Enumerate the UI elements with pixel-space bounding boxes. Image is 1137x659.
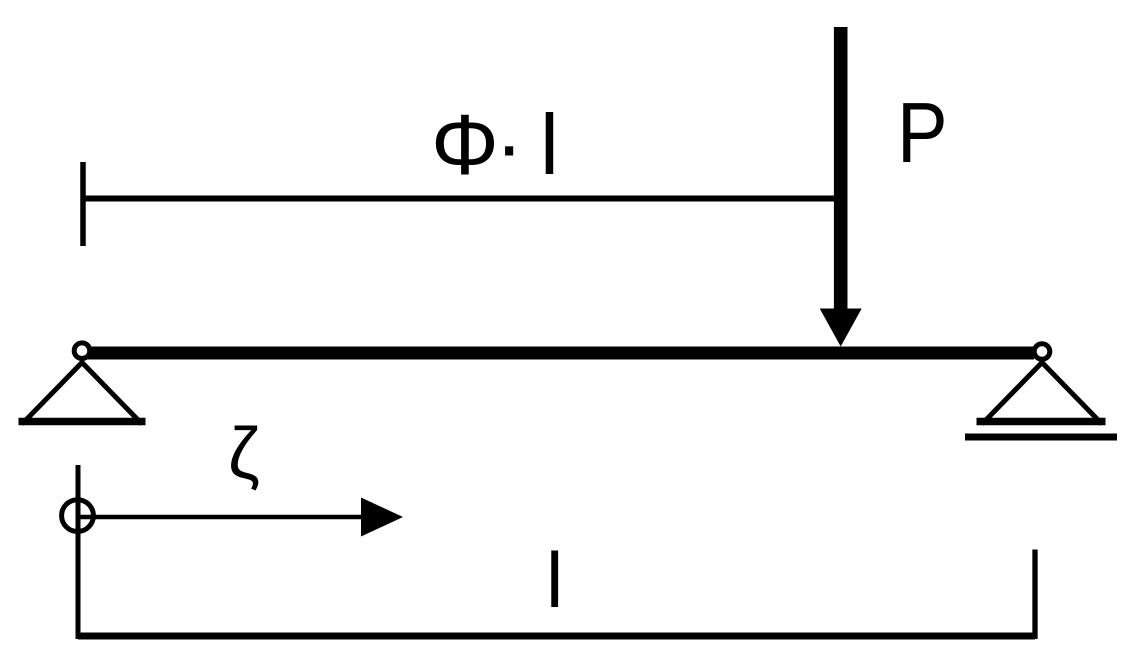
svg-text:Φ: Φ [431,98,499,193]
coordinate axis ζ : vertical reference line (also left tick of dimension l) [76,465,81,639]
coordinate axis ζ : origin circle [62,500,94,532]
dimension line l : right end tick [1032,550,1037,640]
svg-text:P: P [897,86,948,181]
roller support right : roller line [965,434,1117,441]
pin support left : hinge circle [74,343,90,359]
coordinate axis ζ : arrowhead [361,498,403,537]
svg-text:l: l [546,536,563,624]
svg-text:ζ: ζ [228,414,260,494]
svg-text:l: l [540,98,559,193]
pin support left : base line [19,418,146,426]
svg-text:·: · [495,98,523,193]
dimension line Φ·l : horizontal line [81,196,837,202]
beam [88,347,1034,360]
dimension line l : horizontal line [78,633,1035,640]
roller support right : triangle [982,363,1102,425]
pin support left : triangle [22,363,142,425]
roller support right : base line [977,418,1106,426]
roller support right : hinge circle [1034,344,1050,360]
force arrow P : arrowhead [820,309,862,347]
force arrow P : stem [834,27,848,312]
dimension line Φ·l : left end tick [80,162,86,246]
coordinate axis ζ : horizontal axis line [77,515,366,520]
